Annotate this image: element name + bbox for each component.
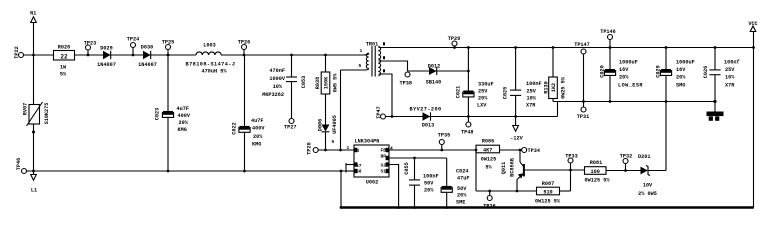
terminal N1	[33, 23, 35, 56]
svg-text:25V: 25V	[527, 89, 537, 95]
svg-text:10%: 10%	[527, 96, 537, 102]
svg-text:0W5 5%: 0W5 5%	[333, 73, 339, 93]
wire emitter net	[475, 150, 477, 191]
svg-text:L1: L1	[31, 188, 37, 194]
svg-text:100nF: 100nF	[423, 174, 439, 180]
svg-text:1N4007: 1N4007	[138, 62, 157, 68]
ground	[713, 100, 716, 103]
svg-text:C021: C021	[456, 86, 462, 98]
wire top rail left (N input)	[24, 54, 54, 56]
svg-text:R087: R087	[542, 181, 554, 187]
svg-text:S1: S1	[381, 169, 387, 175]
svg-text:BP: BP	[381, 154, 387, 160]
capacitor C025 100nF 25V 10% X7R	[514, 46, 517, 49]
wire secondary middle tap	[379, 61, 408, 71]
svg-text:5: 5	[359, 63, 362, 69]
svg-text:LOW_ESR: LOW_ESR	[618, 83, 643, 89]
svg-text:C025: C025	[503, 87, 509, 99]
svg-text:S10K275: S10K275	[44, 103, 50, 125]
svg-text:KMG: KMG	[252, 142, 261, 148]
svg-text:D006: D006	[318, 119, 324, 131]
wire rectifier row	[408, 70, 469, 72]
svg-text:TP35: TP35	[438, 133, 450, 139]
test point TP28	[313, 148, 318, 153]
svg-text:150K: 150K	[324, 76, 330, 89]
svg-text:16V: 16V	[619, 67, 629, 73]
inductor L003 B78108-S1474-J 470uH 5%	[196, 52, 221, 55]
svg-text:4u7F: 4u7F	[177, 106, 189, 112]
svg-text:R086: R086	[482, 139, 494, 145]
svg-text:SME: SME	[456, 200, 465, 206]
svg-text:25V: 25V	[725, 67, 735, 73]
svg-text:KMG: KMG	[178, 127, 187, 133]
svg-text:1000uF: 1000uF	[619, 60, 638, 66]
capacitor C055 100nF 50V 20%	[414, 158, 416, 179]
svg-text:U002: U002	[366, 180, 378, 186]
svg-text:2% 0W5: 2% 0W5	[638, 191, 657, 197]
svg-text:UF4005: UF4005	[332, 115, 338, 134]
test point TP22	[19, 53, 24, 58]
svg-text:C020: C020	[600, 65, 606, 77]
svg-text:510: 510	[543, 190, 552, 196]
transistor Q011 BC856B	[519, 149, 522, 152]
test point TP38	[405, 72, 410, 77]
svg-text:100: 100	[591, 169, 600, 175]
diode D030 1N4007	[143, 51, 151, 59]
svg-text:-12V: -12V	[510, 136, 523, 142]
primary winding pin1 top pin5 bottom	[363, 53, 369, 55]
svg-text:20%: 20%	[457, 193, 467, 199]
capacitor C022 4u7F 400V 20% KMG	[244, 55, 246, 126]
capacitor C053 470nF 1000V 10% MKP3262	[290, 54, 293, 57]
svg-text:C055: C055	[404, 162, 410, 174]
svg-text:TP32: TP32	[620, 154, 632, 160]
svg-text:20%: 20%	[478, 96, 488, 102]
svg-text:TP28: TP28	[307, 142, 313, 154]
svg-text:330uF: 330uF	[478, 82, 494, 88]
wire bottom rail	[341, 206, 754, 208]
svg-text:TP34: TP34	[528, 148, 540, 154]
svg-text:10%: 10%	[725, 75, 735, 81]
svg-text:BC856B: BC856B	[510, 158, 516, 177]
svg-text:LXV: LXV	[477, 103, 487, 109]
wire secondary bottom tap	[379, 74, 393, 117]
svg-text:470nF: 470nF	[269, 68, 285, 74]
test point TP34	[522, 148, 527, 153]
resistor R038 150K 0W5 5%	[324, 54, 327, 57]
svg-text:TP47: TP47	[376, 106, 382, 118]
svg-text:TP48: TP48	[461, 130, 473, 136]
svg-text:1000V: 1000V	[269, 76, 285, 82]
svg-text:20%: 20%	[424, 188, 434, 194]
svg-text:0W25 5%: 0W25 5%	[561, 76, 567, 99]
diode D013 BYV27-200	[423, 112, 431, 120]
svg-text:FB: FB	[381, 148, 387, 154]
svg-text:4: 4	[390, 146, 393, 152]
svg-text:SB140: SB140	[426, 80, 442, 86]
resistor R020 22 1W 5%	[54, 51, 75, 61]
svg-text:50V: 50V	[457, 186, 467, 192]
resistor R086 4K7 0W125 5%	[476, 145, 500, 153]
svg-text:4K7: 4K7	[483, 148, 492, 154]
svg-text:1W: 1W	[60, 65, 67, 71]
svg-text:MKP3262: MKP3262	[262, 92, 284, 98]
svg-text:100nF: 100nF	[526, 81, 542, 87]
svg-text:10%: 10%	[273, 84, 283, 90]
svg-text:10V: 10V	[643, 183, 653, 189]
svg-text:22: 22	[60, 54, 68, 61]
svg-text:X7R: X7R	[526, 103, 536, 109]
test point TP27	[289, 119, 294, 124]
resistor R081 100 0W125 5%	[585, 167, 607, 175]
svg-text:20%: 20%	[179, 120, 189, 126]
svg-text:TP36: TP36	[483, 204, 495, 210]
svg-text:16V: 16V	[676, 67, 686, 73]
svg-text:C023: C023	[155, 108, 161, 120]
terminal L1	[33, 171, 35, 175]
wire base net	[525, 169, 585, 171]
svg-text:C029: C029	[656, 65, 662, 77]
capacitor C021 330uF 25V 20% LXV	[467, 46, 470, 49]
wire L rail drop to bottom rail	[340, 170, 343, 173]
svg-text:0W125: 0W125	[481, 157, 497, 163]
svg-text:TP46: TP46	[16, 158, 22, 170]
svg-text:Q011: Q011	[501, 162, 507, 174]
svg-text:BYV27-200: BYV27-200	[410, 107, 442, 113]
svg-text:1K2: 1K2	[551, 83, 557, 92]
svg-text:TP24: TP24	[127, 37, 139, 43]
wire L rail	[27, 170, 347, 172]
resistor R130 1K2 0W25 5%	[552, 46, 555, 49]
svg-text:1000uF: 1000uF	[676, 60, 695, 66]
svg-text:400V: 400V	[252, 126, 265, 132]
capacitor C020 1000uF 16V 20% LOW_ESR	[609, 48, 611, 70]
svg-text:5%: 5%	[60, 72, 67, 78]
svg-text:TP31: TP31	[577, 114, 589, 120]
capacitor C023 4u7F 400V 20% KMG	[167, 55, 169, 111]
test point TP47	[381, 114, 386, 119]
capacitor C024 47uF 50V 20% SME	[446, 158, 448, 186]
test point TP36	[488, 190, 491, 193]
svg-text:R038: R038	[315, 77, 321, 89]
wire -12V rail	[386, 116, 558, 118]
zener diode D201 10V 2% 0W5	[641, 167, 648, 175]
svg-text:LNK304PN: LNK304PN	[355, 139, 380, 145]
IC U002 LNK304PN	[354, 145, 389, 177]
wire secondary top tap to VCC rail	[379, 47, 754, 49]
svg-text:4u7F: 4u7F	[251, 118, 263, 124]
svg-text:1N4007: 1N4007	[97, 62, 116, 68]
svg-text:1: 1	[360, 48, 363, 54]
wire BP net	[389, 157, 447, 159]
svg-text:TP146: TP146	[600, 29, 616, 35]
svg-text:C022: C022	[232, 122, 238, 134]
svg-text:D013: D013	[422, 123, 434, 129]
svg-text:100nf: 100nf	[724, 60, 740, 66]
svg-text:D: D	[357, 148, 360, 154]
svg-text:L003: L003	[203, 43, 215, 49]
varistor RV07 S10K275	[33, 55, 35, 105]
svg-text:D030: D030	[141, 45, 153, 51]
svg-text:50V: 50V	[424, 181, 434, 187]
svg-text:0W125 5%: 0W125 5%	[585, 178, 611, 184]
svg-text:470uH 5%: 470uH 5%	[202, 69, 228, 75]
svg-text:S8: S8	[356, 169, 362, 175]
svg-text:X7R: X7R	[725, 83, 735, 89]
wire primary bottom to drain node	[340, 70, 342, 150]
svg-text:C026: C026	[703, 66, 709, 78]
wire IC source pin right to bottom rail	[389, 165, 399, 208]
svg-text:TP27: TP27	[284, 125, 296, 131]
svg-text:D029: D029	[100, 46, 112, 52]
wire FB net	[389, 149, 476, 151]
test point TP31	[583, 102, 585, 108]
svg-text:D201: D201	[638, 154, 650, 160]
test point TP33	[568, 158, 573, 163]
svg-text:R081: R081	[590, 160, 602, 166]
svg-text:R130: R130	[544, 81, 550, 93]
wire drain node pin1	[318, 149, 354, 151]
svg-text:TP38: TP38	[400, 81, 412, 87]
test point TP48	[467, 115, 470, 118]
svg-text:TP147: TP147	[574, 42, 590, 48]
svg-text:5%: 5%	[485, 165, 492, 171]
test point TP46	[22, 169, 27, 174]
wire IC source pins left	[346, 164, 354, 166]
svg-text:SMG: SMG	[676, 83, 685, 89]
svg-text:20%: 20%	[253, 134, 263, 140]
svg-text:B78108-S1474-J: B78108-S1474-J	[186, 62, 236, 68]
svg-text:25V: 25V	[478, 89, 488, 95]
svg-text:N1: N1	[30, 11, 36, 17]
terminal -12V	[514, 115, 517, 118]
svg-text:400V: 400V	[178, 113, 191, 119]
secondary winding	[378, 47, 380, 76]
svg-text:D012: D012	[428, 64, 440, 70]
svg-text:C053: C053	[301, 76, 307, 88]
capacitor C026 100nf 25V 10% X7R	[714, 46, 717, 49]
diode D012 SB140	[429, 67, 437, 75]
diode D006 UF4005	[322, 125, 330, 132]
svg-text:47uF: 47uF	[457, 176, 469, 182]
capacitor C029 1000uF 16V 20% SMG	[665, 46, 668, 49]
svg-text:RV07: RV07	[23, 103, 29, 115]
svg-text:S2: S2	[381, 163, 387, 169]
svg-text:20%: 20%	[676, 75, 686, 81]
svg-text:S7: S7	[356, 163, 362, 169]
test point TP32	[624, 169, 627, 172]
diode D029 1N4007	[103, 51, 111, 59]
resistor R087 510 0W125 5%	[537, 187, 560, 195]
wire ground rail right	[553, 101, 715, 103]
svg-text:0W125 5%: 0W125 5%	[535, 199, 561, 205]
svg-text:TP22: TP22	[14, 46, 20, 58]
svg-text:TP33: TP33	[565, 154, 577, 160]
svg-text:5: 5	[332, 139, 335, 145]
svg-text:20%: 20%	[619, 75, 629, 81]
svg-text:R020: R020	[58, 45, 70, 51]
svg-text:C024: C024	[456, 169, 468, 175]
